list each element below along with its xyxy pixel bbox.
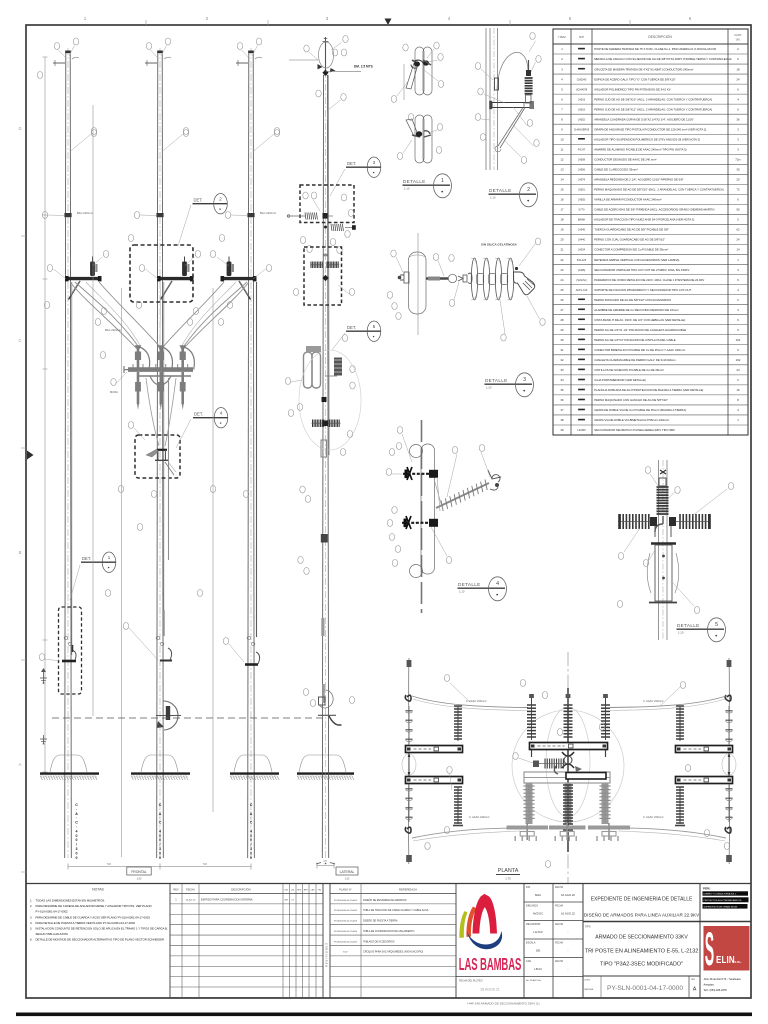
DET 3 callout: [330, 157, 381, 196]
svg-text:31: 31: [560, 348, 564, 352]
left center registration mark: [27, 451, 34, 460]
svg-text:/: /: [160, 843, 161, 847]
pole P4 gray rod segments: [318, 618, 342, 725]
svg-text:R E V I S I O N E S: R E V I S I O N E S: [325, 943, 329, 967]
svg-text:PLANCHA DOBLADA DE AG P/PROTEC: PLANCHA DOBLADA DE AG P/PROTECCION DE BA…: [594, 388, 703, 392]
svg-text:DETALLE: DETALLE: [677, 623, 700, 628]
svg-text:JA440: JA440: [578, 239, 586, 242]
svg-text:TIPO: TIPO: [585, 926, 591, 929]
svg-text:34: 34: [560, 378, 564, 382]
svg-text:FECHA DEL PLOTEO: FECHA DEL PLOTEO: [459, 980, 483, 983]
svg-text:4: 4: [496, 581, 499, 587]
svg-text:28.AGOS.21: 28.AGOS.21: [480, 988, 499, 992]
svg-text:DETALLE DE MONTAJE DE SECCIONA: DETALLE DE MONTAJE DE SECCIONADOR ALTERN…: [36, 938, 165, 942]
svg-text:AISLADOR TIPO SUSPENSION POLIM: AISLADOR TIPO SUSPENSION POLIMERICO DE 2…: [594, 137, 700, 141]
pole P1 lower bracket: [62, 645, 76, 661]
svg-text:ACPL-100: ACPL-100: [576, 289, 588, 292]
svg-text:0: 0: [250, 834, 252, 838]
svg-text:22: 22: [560, 258, 564, 262]
pole P2 ground assembly: [156, 610, 181, 730]
svg-text:4: 4: [159, 829, 161, 833]
detalle 5 label: [677, 618, 726, 642]
svg-text:DET.: DET.: [194, 412, 203, 417]
grid reference numbers top: [84, 16, 692, 25]
svg-text:ARANDELA CUADRADA CURVA DE 3/1: ARANDELA CUADRADA CURVA DE 3/16"X2 1/4"X…: [594, 117, 694, 121]
svg-text:16.JUL.22: 16.JUL.22: [186, 900, 197, 902]
pole P3 lower bracket: [245, 652, 260, 665]
DET 4 callout: [176, 408, 228, 449]
svg-text:LB-04: LB-04: [534, 967, 542, 971]
svg-text:3: 3: [250, 847, 252, 851]
pole P4 lower items: [299, 346, 361, 543]
DET 5 callout: [332, 321, 381, 350]
planta crossarm group right: [675, 706, 736, 826]
svg-text:PY-SLN-0001-04-17-0004: PY-SLN-0001-04-17-0004: [334, 931, 358, 933]
planta bottom fittings: [507, 823, 631, 841]
svg-text:28: 28: [560, 318, 564, 322]
pole P2 crossarm: [157, 276, 194, 281]
pole P2 top hardware: [145, 57, 171, 66]
svg-text:TABLADO DE ACCESORIOS: TABLADO DE ACCESORIOS: [363, 940, 395, 943]
svg-text:POSTE DE MADERA TRATADA DE 75: POSTE DE MADERA TRATADA DE 75 X 8 MC, CL…: [594, 47, 716, 51]
grid reference letters left: [18, 126, 26, 872]
detalle 1 drawing: pole cross-sections with clamps: [404, 47, 432, 163]
revision table: [170, 884, 323, 999]
svg-text:DETALLE: DETALLE: [489, 188, 512, 193]
svg-text:PARA DETALLE DE PUESTA A TIERR: PARA DETALLE DE PUESTA A TIERRA VER PLAN…: [36, 921, 136, 925]
svg-text:PY-SLN-0001-04-17-0000: PY-SLN-0001-04-17-0000: [607, 985, 683, 992]
svg-text:L20345: L20345: [577, 429, 586, 432]
planta center assembly: [512, 688, 624, 852]
svg-text:1: 1: [84, 16, 87, 21]
svg-text:FECHA: FECHA: [555, 886, 564, 889]
svg-text:PERNO AG DE 1/2"X1 1/2" P/FIJA: PERNO AG DE 1/2"X1 1/2" P/FIJACION DE CA…: [594, 328, 686, 332]
svg-text:GRAPA DE DOBLE VIA DE Cu P/CAB: GRAPA DE DOBLE VIA DE Cu P/CABLE DE 35mm…: [594, 408, 686, 412]
svg-text:162: 162: [736, 338, 741, 342]
detalle 2 label: [489, 183, 538, 207]
svg-text:PERNO AG DE 1/4"X4" P/FIJACION: PERNO AG DE 1/4"X4" P/FIJACION DE CINTIL…: [594, 338, 676, 342]
svg-text:3: 3: [326, 16, 329, 21]
svg-text:JA551: JA551: [578, 189, 586, 192]
foundation pole P3: [230, 755, 279, 780]
pole P4 bottom tip marks: [316, 863, 335, 865]
svg-text:DISEÑO DE ENSAMBLE DE ARMADOS: DISEÑO DE ENSAMBLE DE ARMADOS: [363, 899, 407, 902]
svg-text:0: 0: [159, 856, 161, 860]
svg-text:1:20: 1:20: [678, 630, 684, 634]
svg-text:·: ·: [76, 825, 77, 829]
FRONTAL view label: [127, 867, 151, 881]
svg-text:PY-SLN-0001-04-17-0005: PY-SLN-0001-04-17-0005: [334, 941, 358, 943]
svg-text:REFERENCIA: REFERENCIA: [399, 888, 417, 892]
revision side strip: [325, 943, 329, 967]
svg-text:10: 10: [560, 137, 564, 141]
vertical dimension line between P2 P3: [212, 288, 214, 812]
horizontal dimension line lateral: [317, 860, 334, 869]
detalle 5 callouts: [617, 467, 733, 614]
pole P2 crossarm brace: [161, 281, 173, 300]
svg-text:PLANTA: PLANTA: [498, 868, 519, 874]
svg-text:FECHA: FECHA: [555, 923, 564, 926]
svg-text:AVZ/GC: AVZ/GC: [533, 912, 543, 916]
detalle 1 label: [403, 174, 452, 198]
vertical dimension line left of P1: [92, 105, 94, 716]
svg-text:NOTAS: NOTAS: [92, 888, 104, 892]
svg-text:ARMADO DE SECCIONAMIENTO 33KV: ARMADO DE SECCIONAMIENTO 33KV: [595, 935, 688, 941]
svg-text:21: 21: [560, 248, 564, 252]
pole P1 band ring: [64, 213, 71, 217]
svg-text:/: /: [76, 843, 77, 847]
pole P4 top callouts: [304, 36, 348, 61]
svg-text:16.AGO.22: 16.AGO.22: [561, 912, 575, 916]
DET 2 callout: [178, 194, 228, 247]
svg-text:0: 0: [250, 838, 252, 842]
svg-text:DM. 2.5 MTS: DM. 2.5 MTS: [354, 65, 373, 69]
svg-text:LATERAL: LATERAL: [340, 870, 355, 874]
svg-text:DET.: DET.: [194, 198, 203, 203]
svg-text:CONECTOR BIMETALICO P/CABLE DE: CONECTOR BIMETALICO P/CABLE DE Cu DE 35m…: [594, 348, 685, 352]
svg-text:4: 4: [76, 829, 78, 833]
svg-text:13: 13: [560, 168, 564, 172]
planta right conductor: [725, 658, 732, 864]
pole P4 top mast: [289, 37, 361, 76]
pole P4 switch callouts: [293, 285, 354, 296]
reference drawings table: [330, 884, 456, 999]
svg-text:JA515: JA515: [578, 108, 586, 111]
svg-text:0: 0: [159, 838, 161, 842]
svg-text:DETALLE: DETALLE: [403, 179, 426, 184]
DM 2.5 MTS label: [354, 65, 373, 69]
svg-text:JA552: JA552: [578, 118, 586, 121]
svg-text:SECCIONADOR UNIPOLAR TIPO CUT-: SECCIONADOR UNIPOLAR TIPO CUT-OUT DE 27/…: [594, 268, 689, 272]
svg-text:INSTALACION CONJUNTO DE RETENC: INSTALACION CONJUNTO DE RETENCION SOLO S…: [36, 927, 169, 931]
svg-text:16: 16: [560, 198, 564, 202]
detalle 2 callouts: [475, 33, 541, 164]
svg-text:ITEM: ITEM: [558, 35, 566, 39]
svg-text:FECHA: FECHA: [555, 942, 564, 945]
svg-text:534-425: 534-425: [577, 259, 587, 262]
svg-text:DETALLE: DETALLE: [458, 582, 481, 587]
svg-text:ESCALA: ESCALA: [526, 942, 536, 945]
planta centerline: [567, 652, 569, 884]
svg-text:I-44F-140 ARMADO DE SECCIONA: I-44F-140 ARMADO DE SECCIONAMIENTO 33KV …: [467, 1002, 540, 1006]
detalle 2 drawing: crossarm with insulator: [486, 28, 534, 170]
svg-text:BAMH: BAMH: [578, 219, 585, 222]
svg-text:C: C: [250, 803, 253, 807]
svg-text:16: 16: [736, 388, 740, 392]
svg-text:S: S: [705, 924, 714, 975]
svg-text:PERNO ROSCADO DE AG DE 5/8"X12: PERNO ROSCADO DE AG DE 5/8"X12" CON ACCE…: [594, 298, 671, 302]
svg-text:SY70: SY70: [578, 209, 585, 212]
svg-text:S/N SILICA GELATINOSA: S/N SILICA GELATINOSA: [481, 243, 518, 247]
svg-text:15: 15: [560, 188, 564, 192]
svg-text:DESCRIPCIÓN: DESCRIPCIÓN: [231, 887, 250, 892]
ground rod symbol near P1: [40, 668, 47, 684]
svg-text:11: 11: [561, 148, 564, 152]
DET 1 callout: [70, 552, 116, 600]
svg-text:39: 39: [560, 428, 564, 432]
vertical dimension line between P1 P2: [121, 288, 123, 857]
pole P3 crossarm callouts: [210, 251, 271, 326]
svg-text:14: 14: [736, 248, 740, 252]
svg-text:1.: 1.: [30, 899, 33, 903]
svg-text:·: ·: [250, 825, 251, 829]
pole P1 joint: [64, 636, 72, 645]
svg-text:JA519: JA519: [578, 98, 586, 101]
pole P3 top cap: [248, 51, 254, 54]
svg-text:·: ·: [250, 807, 251, 811]
foundation pole P2: [131, 755, 190, 780]
svg-text:3: 3: [159, 847, 161, 851]
svg-text:5: 5: [569, 16, 572, 21]
planta lower jumper curves: [412, 828, 726, 841]
pole P1 pin insulator: [90, 257, 97, 277]
pole P4 mid callouts: [300, 231, 350, 254]
svg-text:1:20: 1:20: [486, 385, 492, 389]
svg-text:PARA DESARME DE CABLE DE GUARD: PARA DESARME DE CABLE DE GUARDA Y ACSS V…: [36, 915, 151, 919]
svg-text:CROQUIS PARA SAC ARQUIMEDES UN: CROQUIS PARA SAC ARQUIMEDES UNION (ACOPI…: [363, 951, 423, 954]
vertical dimension line left: [43, 57, 48, 772]
svg-text:27: 27: [560, 308, 564, 312]
pole P3 top hardware: [236, 57, 262, 66]
svg-text:Telf.: (054) 425-4478: Telf.: (054) 425-4478: [704, 989, 728, 992]
pole P4 body: [322, 71, 328, 858]
signature columns: [524, 886, 583, 982]
svg-text:PERNO OJO DE AG DE 5/8"X12" (I: PERNO OJO DE AG DE 5/8"X12" (INCL. 2 ARA…: [594, 107, 712, 111]
svg-text:23: 23: [560, 268, 564, 272]
svg-text:PM: PM: [318, 890, 321, 892]
svg-text:3: 3: [76, 847, 78, 851]
svg-text:33: 33: [560, 368, 564, 372]
svg-text:1:10: 1:10: [490, 195, 496, 199]
pole P2 top callouts: [146, 38, 170, 58]
title block outline: [26, 884, 751, 999]
pole P1 top cap: [65, 51, 71, 54]
detalle 4 callouts: [386, 427, 490, 567]
svg-text:CINTA BAND-IT DE AC. INOX. DE: CINTA BAND-IT DE AC. INOX. DE 3/4" CON H…: [594, 318, 685, 322]
svg-text:DIS.: DIS.: [526, 886, 531, 889]
svg-text:2.: 2.: [30, 904, 33, 908]
foundation pole P4: [297, 755, 354, 780]
svg-text:ESPIGA DE ACERO GALV. TIPO "U": ESPIGA DE ACERO GALV. TIPO "U" CON TUERC…: [594, 77, 675, 81]
planta left conductor: [405, 658, 412, 864]
consultant block: [703, 887, 749, 909]
svg-text:AISLADOR DE TRACCION TIPO NUEZ: AISLADOR DE TRACCION TIPO NUEZ ANSI 54-3…: [594, 218, 694, 222]
footer filename text: [467, 1002, 540, 1006]
downlead pole P1: [71, 282, 73, 655]
svg-text:A: A: [19, 762, 22, 767]
svg-text:D: D: [18, 126, 21, 131]
detalle 3 drawing: suspension insulator string: [398, 233, 472, 335]
svg-text:AISLADOR POLIMERICO TIPO PIN P: AISLADOR POLIMERICO TIPO PIN P/TENSION D…: [594, 87, 671, 91]
svg-text:-: -: [568, 967, 569, 971]
svg-text:SEGUN TABLA ADJUNTA: SEGUN TABLA ADJUNTA: [36, 932, 69, 936]
svg-text:1:10: 1:10: [459, 589, 465, 593]
svg-text:6.: 6.: [30, 938, 33, 942]
svg-text:PARARRAYO DE OXIDO METALICO DE: PARARRAYO DE OXIDO METALICO DE 21KV, 10K…: [594, 278, 704, 282]
svg-text:C: C: [159, 821, 162, 825]
svg-text:24: 24: [736, 77, 740, 81]
svg-text:19: 19: [560, 228, 564, 232]
pole P3 top callouts: [237, 38, 261, 58]
bottom scan bar: [16, 1013, 752, 1017]
pole P2 body: [157, 48, 164, 858]
svg-text:/: /: [251, 843, 252, 847]
pole P4 lower callouts: [288, 335, 352, 575]
pole P4 bottom callouts: [303, 689, 354, 707]
conductor label BAC 240mm2 pole P1: [77, 211, 93, 215]
dashed interconnect line: [52, 717, 326, 719]
svg-text:CANALETA GUARDACABLE DE FIERRO: CANALETA GUARDACABLE DE FIERRO GALV. DE …: [594, 358, 676, 362]
svg-text:PERNO OJO DE AG DE 5/8"X10" (I: PERNO OJO DE AG DE 5/8"X10" (INCL. 2 ARA…: [594, 97, 712, 101]
top center registration mark: [385, 19, 392, 26]
svg-text:REV: REV: [691, 979, 696, 981]
dim labels frontal: [107, 862, 207, 866]
svg-text:CINTILLOS DE SUJECION P/CABLE: CINTILLOS DE SUJECION P/CABLE DE Cu DE 3…: [594, 368, 664, 372]
dashed detail box pole P1 lower: [59, 607, 82, 694]
svg-text:1:50: 1:50: [345, 878, 350, 881]
svg-text:·: ·: [159, 825, 160, 829]
pole P3 band ring: [247, 213, 254, 217]
pole P4 dashed box lower: [304, 247, 342, 305]
pole P2 band ring: [156, 213, 163, 217]
svg-text:1:75: 1:75: [505, 877, 511, 881]
svg-text:ARANDELA REDONDA DE 2 1/4", AG: ARANDELA REDONDA DE 2 1/4", AGUJERO 11/1…: [594, 178, 683, 182]
svg-text:35: 35: [560, 388, 564, 392]
svg-text:C: C: [75, 821, 78, 825]
detalle 1 callouts: [391, 42, 443, 160]
pole P1 ring callout: [42, 212, 64, 219]
svg-text:LAS BAMBAS: LAS BAMBAS: [459, 954, 521, 974]
pole P1 body: [65, 48, 72, 858]
svg-text:·: ·: [159, 807, 160, 811]
detalle 4 drawing: pole with tension insulator: [402, 420, 501, 613]
svg-text:GRAPA VIA DE DOBLE VIA BIMETAL: GRAPA VIA DE DOBLE VIA BIMETALICA P/35mm…: [594, 418, 669, 422]
pole P3 mid callout: [253, 128, 280, 153]
svg-text:0: 0: [159, 851, 161, 855]
svg-text:72: 72: [736, 188, 740, 192]
svg-text:·: ·: [76, 816, 77, 820]
pole P3 pin insulator: [227, 257, 234, 277]
svg-text:24: 24: [560, 278, 564, 282]
svg-text:17: 17: [560, 208, 564, 212]
misc callout circles frontal: [37, 72, 279, 597]
pole P4 switch parts: [310, 255, 339, 281]
svg-text:TUERCA GUARDACABO DE AG DE 5/8: TUERCA GUARDACABO DE AG DE 5/8" P/CABLE …: [594, 228, 669, 232]
pole P2 box callout: [128, 422, 145, 441]
svg-text:JA508: JA508: [578, 159, 586, 162]
svg-text:72m: 72m: [735, 158, 741, 162]
svg-text:0: 0: [250, 856, 252, 860]
svg-text:JA546: JA546: [578, 229, 586, 232]
LATERAL view label: [336, 867, 358, 881]
downlead pole P2: [163, 282, 165, 610]
pole P3 crossarm brace: [239, 281, 251, 300]
svg-text:PARA DESARME DE CADENA DE AISL: PARA DESARME DE CADENA DE AISLADOR DARSE…: [36, 904, 153, 908]
downlead pole P3: [256, 282, 258, 637]
svg-text:18: 18: [560, 218, 564, 222]
svg-text:20: 20: [736, 178, 740, 182]
svg-text:C: C: [75, 803, 78, 807]
svg-text:(A425): (A425): [578, 269, 586, 272]
notas block: [30, 888, 168, 942]
svg-text:CABLE DE ACERO EHS DE 3/8" P/R: CABLE DE ACERO EHS DE 3/8" P/RIENDA (INC…: [594, 208, 714, 212]
svg-text:DIBUJADO: DIBUJADO: [526, 905, 538, 908]
planta crossarm group left: [402, 706, 463, 826]
pole P3 ring callout: [225, 212, 247, 219]
svg-text:CM2040: CM2040: [577, 78, 587, 81]
pole P4 upper callouts: [316, 90, 346, 120]
planta center knot: [554, 752, 582, 774]
planta gray platform: [523, 772, 610, 824]
svg-text:A: A: [693, 987, 697, 993]
conductor label BAC 240mm2 mid: [105, 328, 121, 332]
svg-text:GRAPA DE ANGURAJE TIPO PISTOLA: GRAPA DE ANGURAJE TIPO PISTOLA P/CONDUCT…: [594, 127, 706, 131]
svg-text:26: 26: [560, 298, 564, 302]
svg-text:MR: MR: [285, 900, 289, 902]
svg-text:36: 36: [560, 398, 564, 402]
svg-text:TRI POSTE EN ALINEAMIENTO E-55: TRI POSTE EN ALINEAMIENTO E-55, L-2132: [585, 949, 699, 955]
pole P4 coil row 2: [324, 224, 356, 231]
pole P1 crossarm: [65, 276, 102, 281]
svg-text:14: 14: [560, 178, 564, 182]
svg-text:30: 30: [560, 338, 564, 342]
svg-text:PY-SLN-0001-04-17-0003: PY-SLN-0001-04-17-0003: [334, 921, 358, 923]
svg-text:N/P: N/P: [579, 35, 584, 39]
svg-text:·: ·: [250, 816, 251, 820]
pole P1 lower callout: [39, 654, 60, 662]
pole P1 crossarm brace: [69, 281, 81, 300]
svg-text:MENSULA DE ANGULO CON SUJECION: MENSULA DE ANGULO CON SUJECION DE AG DE …: [594, 57, 731, 61]
ground rod symbol near P1 lower: [40, 735, 47, 744]
planta lower dark bar: [563, 773, 606, 833]
pole P3 body: [248, 48, 255, 858]
svg-text:TABLA DE COORDINACION DE AISLA: TABLA DE COORDINACION DE AISLAMIENTO: [363, 930, 414, 933]
svg-text:24: 24: [736, 368, 740, 372]
pole P4 bracket assembly: [304, 352, 343, 388]
pole P2 top cap: [157, 51, 163, 54]
svg-text:0: 0: [250, 851, 252, 855]
pole P1 top callouts: [54, 38, 78, 58]
svg-text:5: 5: [715, 622, 718, 628]
svg-text:DESCRIPCIÓN: DESCRIPCIÓN: [648, 34, 672, 39]
svg-text:1:10: 1:10: [404, 186, 410, 190]
svg-text:25: 25: [560, 288, 564, 292]
svg-text:DISEÑO DE ARMADOS PARA LINEA A: DISEÑO DE ARMADOS PARA LINEA AUXILIAR 22…: [584, 912, 700, 918]
detalle 4 label: [458, 577, 507, 601]
svg-text:B: B: [19, 550, 22, 555]
pole P1 crossarm callouts: [47, 251, 108, 326]
pole P2 ground callouts: [100, 352, 158, 661]
foundation pole P1: [40, 755, 99, 780]
dashed detail box pole P2 switch lower: [135, 435, 180, 478]
svg-text:S/E: S/E: [536, 949, 541, 953]
svg-text:12: 12: [560, 158, 564, 162]
svg-text:PY-SLN-0001-04-17-0001: PY-SLN-0001-04-17-0001: [334, 900, 358, 902]
svg-text:20: 20: [560, 238, 564, 242]
svg-text:162: 162: [736, 358, 741, 362]
svg-text:3.: 3.: [30, 915, 33, 919]
svg-text:CRUCETA DE MADERA TRATADA DE 4: CRUCETA DE MADERA TRATADA DE 4"X5"X2.40M…: [594, 67, 693, 71]
svg-text:32: 32: [560, 358, 564, 362]
detalle 3 callouts: [387, 238, 545, 341]
svg-text:FECHA: FECHA: [555, 960, 564, 963]
svg-text:2: 2: [527, 187, 530, 193]
svg-text:A: A: [75, 812, 78, 816]
detalle 3 text: [481, 243, 518, 247]
svg-text:(SvSchn): (SvSchn): [576, 279, 586, 282]
svg-text:-: -: [568, 930, 569, 934]
svg-text:TIPO "P3A2-3SEC MODIFICADO": TIPO "P3A2-3SEC MODIFICADO": [600, 962, 683, 968]
